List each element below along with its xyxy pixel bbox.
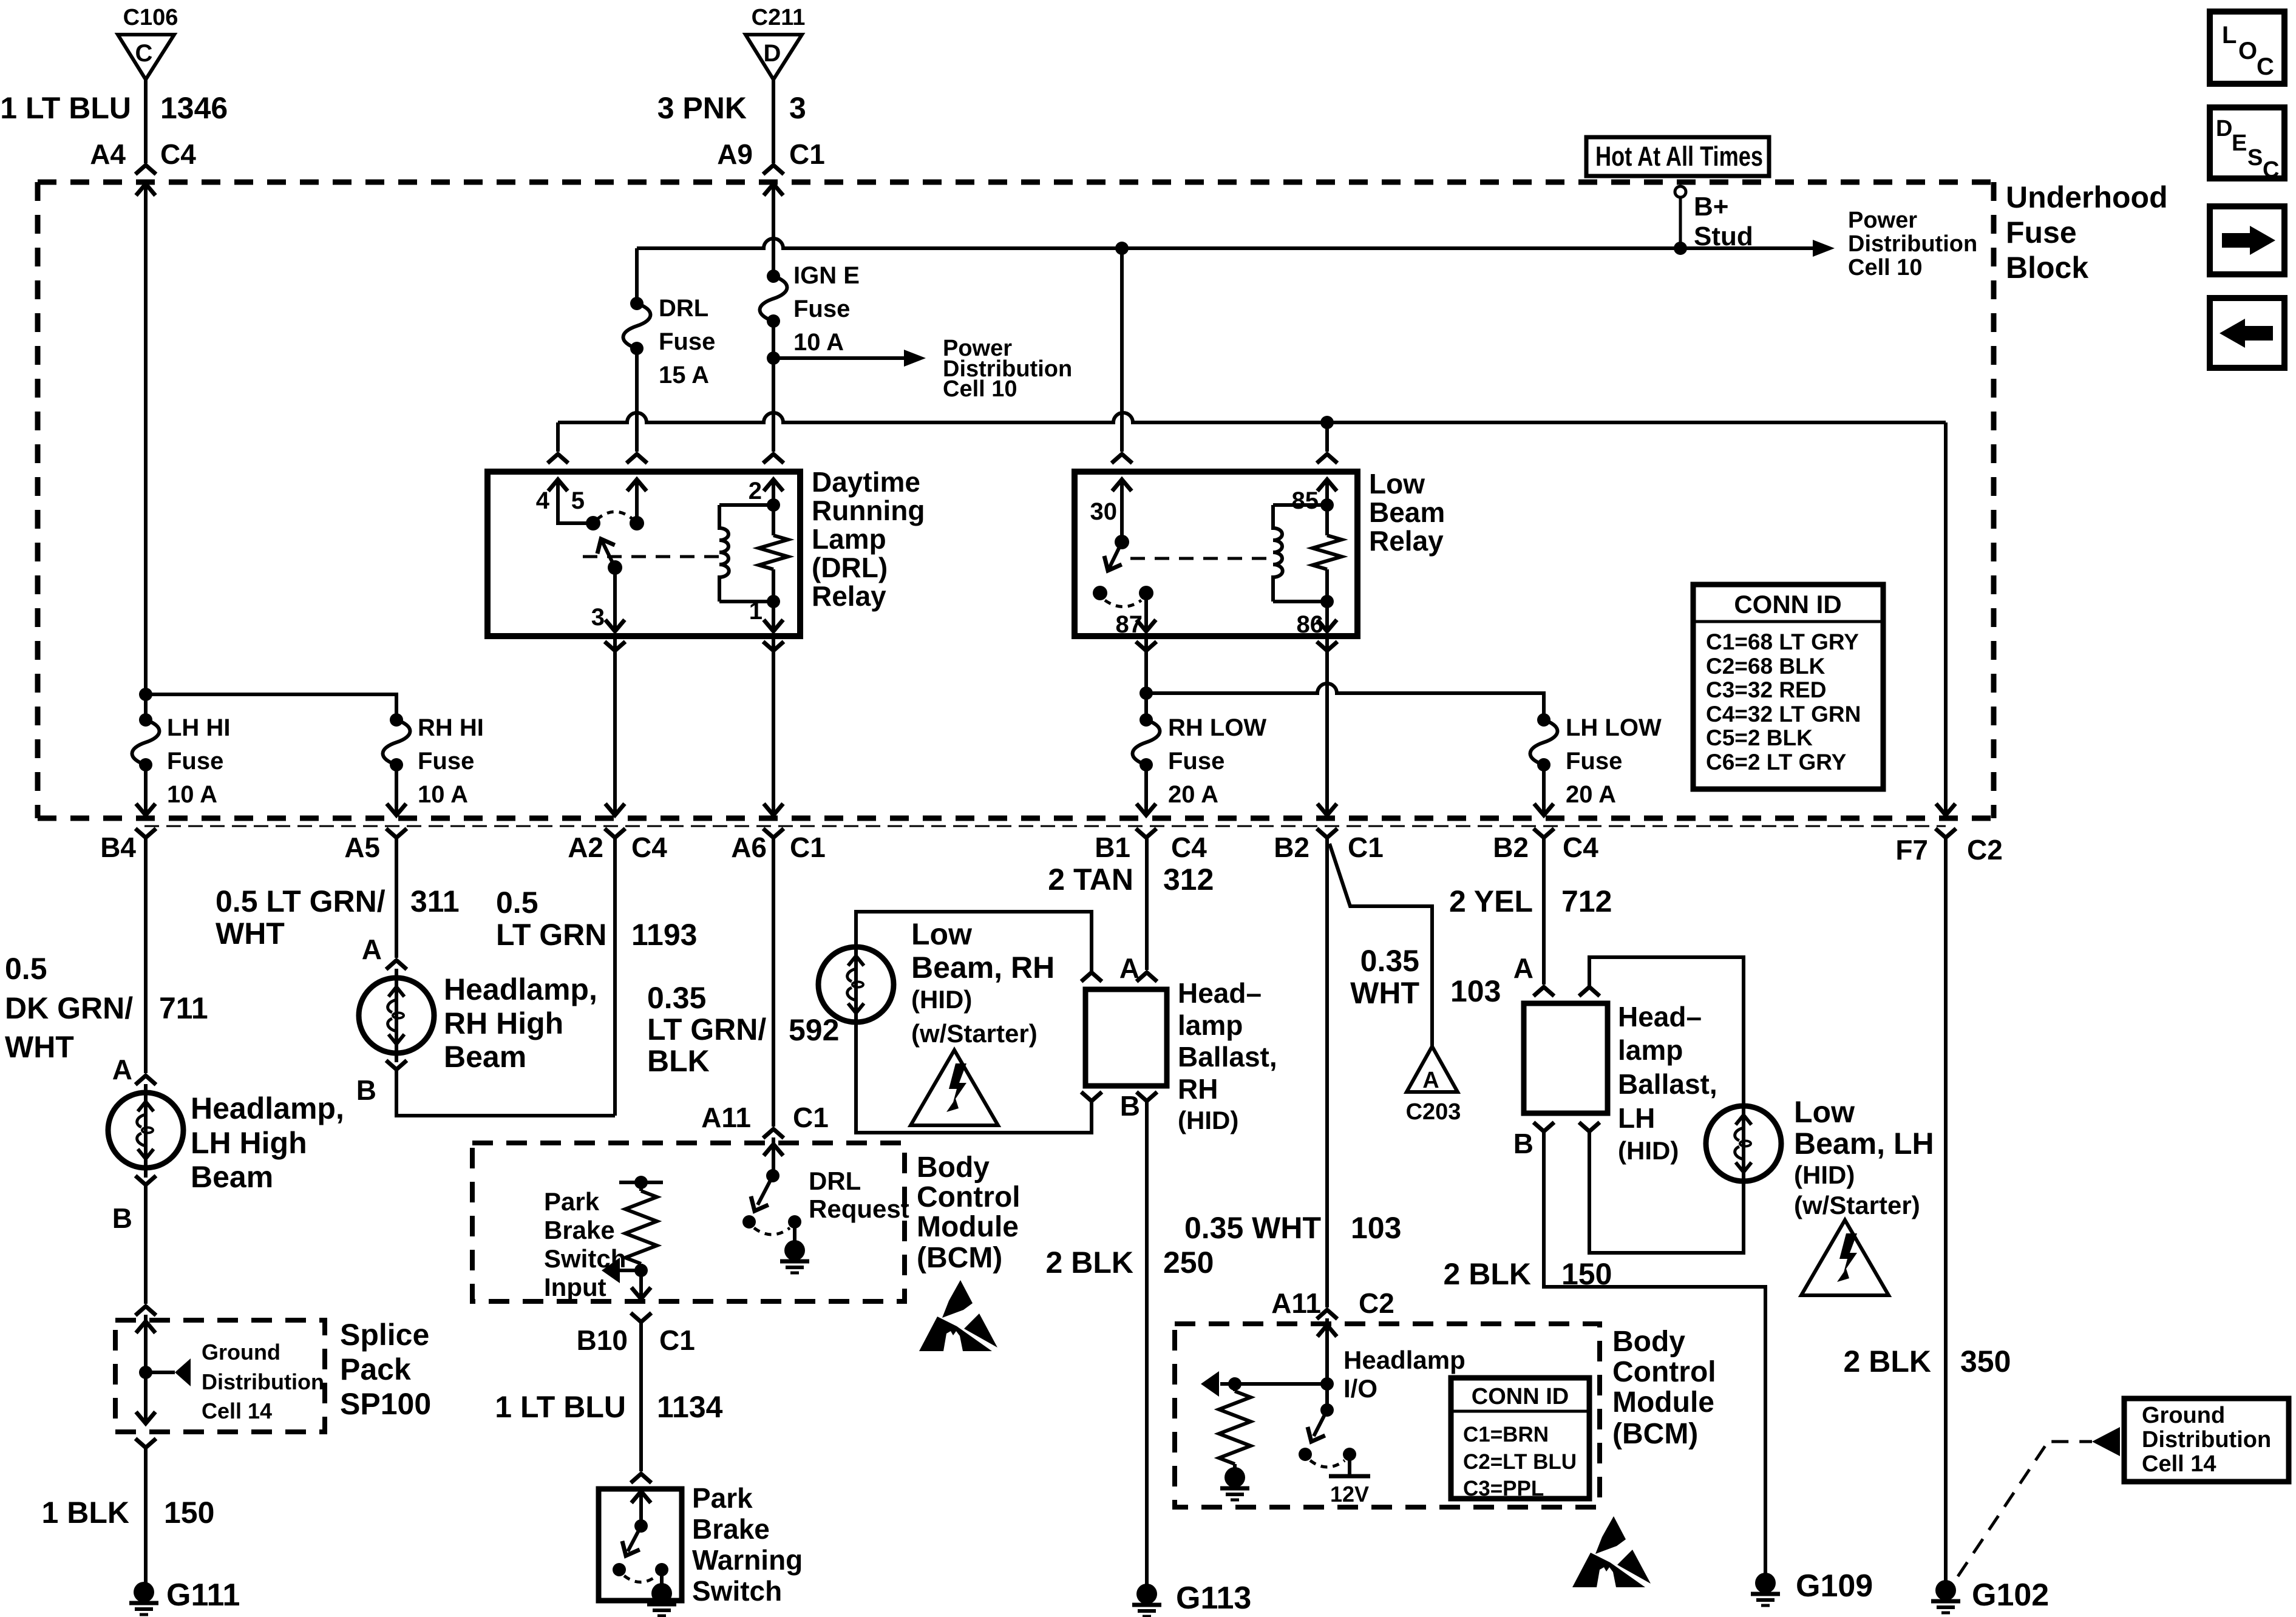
svg-text:Fuse: Fuse xyxy=(1168,748,1224,775)
svg-text:Pack: Pack xyxy=(340,1352,411,1386)
svg-text:WHT: WHT xyxy=(5,1030,74,1064)
wire pin86 to border B2 xyxy=(1325,636,1329,815)
svg-text:C4: C4 xyxy=(160,138,196,170)
svg-text:C: C xyxy=(2257,53,2274,80)
svg-text:E: E xyxy=(2232,131,2247,156)
svg-text:G113: G113 xyxy=(1176,1581,1251,1616)
LB relay switch common xyxy=(1115,535,1129,549)
svg-text:LH HI: LH HI xyxy=(167,714,230,741)
svg-text:0.35 WHT: 0.35 WHT xyxy=(1184,1211,1321,1245)
svg-text:Beam: Beam xyxy=(1369,497,1445,528)
ground DRL request internal xyxy=(780,1240,809,1273)
svg-text:312: 312 xyxy=(1163,863,1214,897)
svg-text:Fuse: Fuse xyxy=(167,748,223,775)
DRL relay switch common xyxy=(586,516,600,531)
svg-text:B+: B+ xyxy=(1694,192,1728,222)
node pin87 low beam split xyxy=(1140,686,1153,700)
connector C106 xyxy=(118,5,178,80)
LB relay dashed throw arc xyxy=(1105,600,1141,607)
headlamp ballast LH box xyxy=(1524,1003,1608,1113)
svg-text:C2: C2 xyxy=(1359,1287,1394,1319)
svg-text:O: O xyxy=(2238,38,2257,64)
DRL relay pin 2 xyxy=(749,478,783,505)
connector C211 xyxy=(746,5,805,80)
svg-text:B2: B2 xyxy=(1493,832,1529,863)
wire ballast RH B to G113 xyxy=(1145,1101,1149,1584)
right arrow box xyxy=(2210,206,2284,274)
svg-text:(BCM): (BCM) xyxy=(1612,1418,1698,1450)
wire RH LOW fuse to border B1 xyxy=(1144,765,1148,815)
svg-text:G111: G111 xyxy=(166,1578,240,1613)
svg-text:2 TAN: 2 TAN xyxy=(1048,863,1133,897)
svg-text:D: D xyxy=(2216,116,2232,141)
exit A6 C1 xyxy=(763,829,784,838)
B+ stud xyxy=(1675,186,1753,251)
wire B+ rail y409 xyxy=(637,239,1680,248)
svg-text:350: 350 xyxy=(1960,1344,2011,1378)
relay DRL box xyxy=(487,472,800,636)
svg-text:A11: A11 xyxy=(701,1102,751,1133)
svg-text:592: 592 xyxy=(789,1013,839,1047)
svg-text:10 A: 10 A xyxy=(418,781,468,808)
wire F7 C2 to G102 xyxy=(1944,838,1948,1581)
svg-text:10 A: 10 A xyxy=(167,781,217,808)
DRL request switch xyxy=(742,1167,909,1242)
svg-text:Beam, RH: Beam, RH xyxy=(911,951,1055,985)
resistor headlamp I/O pull-down xyxy=(1219,1377,1251,1469)
svg-text:3 PNK: 3 PNK xyxy=(657,91,747,125)
wire pin5 drop xyxy=(635,413,639,452)
svg-text:Running: Running xyxy=(812,495,925,526)
svg-text:IGN E: IGN E xyxy=(793,262,860,289)
headlamp I/O switch xyxy=(1299,1403,1370,1507)
svg-text:A: A xyxy=(1513,952,1533,984)
svg-text:712: 712 xyxy=(1561,884,1612,918)
park brake switch input pull-up xyxy=(619,1176,663,1298)
wire C211 to fuse block xyxy=(772,80,775,163)
svg-text:LT GRN: LT GRN xyxy=(496,918,606,952)
svg-text:CONN ID: CONN ID xyxy=(1734,590,1841,619)
park brake warning switch box xyxy=(599,1489,682,1601)
fuse RH LOW 20A xyxy=(1133,713,1267,808)
node ballast RH pin B xyxy=(1081,1092,1102,1101)
BCM dashed box (headlamp I/O) xyxy=(1175,1324,1600,1507)
svg-text:F7: F7 xyxy=(1895,834,1928,866)
svg-text:LH LOW: LH LOW xyxy=(1566,714,1662,741)
wire B2 C4 to ballast LH pin A xyxy=(1542,838,1546,985)
svg-text:(BCM): (BCM) xyxy=(917,1242,1002,1274)
svg-text:0.35: 0.35 xyxy=(1360,944,1419,978)
svg-text:1 BLK: 1 BLK xyxy=(42,1496,129,1530)
svg-text:C3=32 RED: C3=32 RED xyxy=(1706,677,1826,702)
connector face line C1/C2/C4 xyxy=(144,825,1946,827)
svg-text:DRL: DRL xyxy=(809,1167,861,1195)
svg-text:C106: C106 xyxy=(123,5,178,30)
wire B4 to LH high beam xyxy=(144,838,148,1073)
fuse DRL 15A xyxy=(623,248,716,388)
wire dashed reference to ground distribution xyxy=(1958,1442,2092,1576)
node splice junction xyxy=(139,1366,152,1379)
svg-text:B: B xyxy=(112,1202,132,1234)
svg-text:A6: A6 xyxy=(731,832,767,863)
LB relay actuation dashed link xyxy=(1130,557,1273,560)
wire pin87 drop xyxy=(1144,636,1148,720)
DRL relay pin 1 xyxy=(749,598,783,631)
svg-text:C: C xyxy=(135,40,153,67)
svg-text:(HID): (HID) xyxy=(1794,1161,1855,1189)
svg-text:Body: Body xyxy=(1612,1326,1685,1358)
svg-text:S: S xyxy=(2247,145,2263,171)
svg-text:D: D xyxy=(764,40,781,67)
svg-text:Ground: Ground xyxy=(202,1340,280,1364)
headlamp LH High Beam bulb xyxy=(144,1084,148,1178)
svg-text:1: 1 xyxy=(749,598,763,625)
svg-text:2 BLK: 2 BLK xyxy=(1046,1246,1133,1280)
svg-text:C2=68 BLK: C2=68 BLK xyxy=(1706,654,1826,679)
node IGN E branch xyxy=(767,351,780,365)
svg-text:A4: A4 xyxy=(90,138,126,170)
svg-text:L: L xyxy=(2222,22,2237,49)
svg-text:WHT: WHT xyxy=(216,917,285,951)
svg-text:103: 103 xyxy=(1351,1211,1401,1245)
svg-text:250: 250 xyxy=(1163,1246,1214,1280)
svg-text:A11: A11 xyxy=(1271,1287,1321,1319)
svg-text:Beam: Beam xyxy=(191,1160,273,1194)
svg-text:Power: Power xyxy=(1848,208,1917,233)
exit B4 xyxy=(135,829,156,838)
svg-text:Relay: Relay xyxy=(812,580,886,612)
svg-text:C6=2 LT GRY: C6=2 LT GRY xyxy=(1706,750,1847,775)
svg-text:Control: Control xyxy=(1612,1356,1716,1388)
svg-text:C4: C4 xyxy=(1563,832,1598,863)
low beam RH bulb xyxy=(818,947,894,1022)
svg-text:2: 2 xyxy=(749,478,762,504)
ground headlamp I/O internal xyxy=(1220,1467,1249,1500)
svg-text:A: A xyxy=(112,1054,132,1085)
svg-text:Beam, LH: Beam, LH xyxy=(1794,1127,1934,1161)
svg-text:0.5: 0.5 xyxy=(5,952,47,986)
svg-text:1 LT BLU: 1 LT BLU xyxy=(0,91,131,125)
svg-text:C2: C2 xyxy=(1967,834,2003,866)
svg-text:Control: Control xyxy=(917,1181,1021,1213)
svg-text:Underhood: Underhood xyxy=(2006,180,2168,214)
svg-text:C4: C4 xyxy=(1171,832,1207,863)
svg-text:G109: G109 xyxy=(1796,1568,1873,1604)
ground G111 xyxy=(129,1582,158,1615)
wire headlamp I/O reference arrow xyxy=(1220,1382,1327,1386)
svg-text:(HID): (HID) xyxy=(1618,1136,1679,1165)
ground G113 xyxy=(1132,1584,1161,1616)
DRL relay switch blade xyxy=(593,535,615,568)
Hot At All Times box xyxy=(1586,137,1769,176)
svg-text:A5: A5 xyxy=(344,832,380,863)
exit B1 C4 xyxy=(1136,829,1156,838)
svg-text:150: 150 xyxy=(164,1496,214,1530)
svg-text:A9: A9 xyxy=(717,138,753,170)
svg-text:Brake: Brake xyxy=(692,1513,770,1545)
svg-text:C4: C4 xyxy=(631,832,667,863)
svg-text:LH High: LH High xyxy=(191,1126,307,1160)
node B terminal LH high beam xyxy=(135,1176,156,1185)
DRL relay pin 5 contact xyxy=(571,480,647,531)
ground G102 xyxy=(1931,1580,1960,1613)
fuse LH LOW 20A xyxy=(1530,713,1662,808)
ESD symbol BCM2 xyxy=(1572,1516,1651,1587)
svg-text:Hot At All Times: Hot At All Times xyxy=(1595,141,1763,172)
svg-text:Module: Module xyxy=(1612,1386,1714,1419)
wire B2 C1 down to BCM xyxy=(1325,838,1329,1307)
node headlamp I/O junction xyxy=(1320,1377,1334,1391)
DRL relay pin 4 xyxy=(536,480,593,523)
svg-text:C211: C211 xyxy=(752,5,806,30)
svg-text:Fuse: Fuse xyxy=(659,328,715,355)
wire B10 exit from BCM xyxy=(631,1287,651,1299)
svg-text:Block: Block xyxy=(2006,251,2088,285)
svg-text:Distribution: Distribution xyxy=(1848,231,1977,257)
headlamp ballast RH box xyxy=(1085,989,1167,1086)
svg-text:103: 103 xyxy=(1450,974,1501,1008)
svg-text:Park: Park xyxy=(692,1482,753,1514)
fuse RH HI 10A xyxy=(383,713,484,808)
wire A5 to RH high beam xyxy=(395,838,398,958)
wire rail y696 pin4 to F7 xyxy=(558,413,1946,422)
relay Low Beam box xyxy=(1075,472,1357,636)
node park brake input junction xyxy=(634,1264,648,1277)
svg-text:Ballast,: Ballast, xyxy=(1178,1041,1277,1073)
LB relay pin 86 xyxy=(1297,602,1337,638)
svg-text:SP100: SP100 xyxy=(340,1387,431,1421)
svg-text:5: 5 xyxy=(571,487,585,514)
DRL relay dashed throw arc xyxy=(597,512,633,520)
svg-text:Request: Request xyxy=(809,1195,909,1223)
low beam LH bulb xyxy=(1706,1106,1781,1181)
svg-text:(DRL): (DRL) xyxy=(812,552,888,583)
svg-text:lamp: lamp xyxy=(1178,1009,1243,1041)
svg-text:C: C xyxy=(2263,157,2279,183)
svg-text:Fuse: Fuse xyxy=(418,748,474,775)
wire A6 column down to BCM xyxy=(772,838,775,1127)
BCM dashed box (DRL request) xyxy=(472,1143,905,1301)
wire link to RH HI fuse xyxy=(146,694,396,720)
wire A2 column down xyxy=(613,838,617,1116)
wire B1 C4 to ballast RH pin A xyxy=(1145,838,1149,970)
DRL relay pin 3 xyxy=(591,568,625,631)
svg-text:B1: B1 xyxy=(1095,832,1130,863)
svg-text:Headlamp: Headlamp xyxy=(1343,1346,1466,1374)
LB relay pin 87 xyxy=(1116,593,1156,638)
node B+ rail to pin30 riser xyxy=(1115,242,1129,255)
svg-text:311: 311 xyxy=(410,884,460,918)
node rail to LB relay pin85 xyxy=(1320,416,1334,429)
svg-text:C1: C1 xyxy=(1348,832,1384,863)
svg-text:(HID): (HID) xyxy=(911,985,972,1014)
svg-text:C2=LT BLU: C2=LT BLU xyxy=(1463,1450,1577,1474)
svg-text:DRL: DRL xyxy=(659,295,708,322)
LB relay switch blade xyxy=(1099,542,1122,575)
svg-text:1346: 1346 xyxy=(160,91,228,125)
svg-text:Beam: Beam xyxy=(444,1040,526,1074)
wire C211 feed down to IGN E fuse xyxy=(772,184,775,276)
svg-text:C1: C1 xyxy=(659,1324,695,1356)
node high beam feed split xyxy=(139,688,152,701)
svg-text:85: 85 xyxy=(1292,487,1319,514)
svg-text:Relay: Relay xyxy=(1369,525,1444,557)
svg-text:B: B xyxy=(1120,1090,1140,1122)
svg-text:lamp: lamp xyxy=(1618,1034,1683,1066)
svg-text:Lamp: Lamp xyxy=(812,523,886,555)
svg-text:Ground: Ground xyxy=(2142,1403,2225,1428)
splice pack SP100 dashed box xyxy=(115,1320,325,1432)
wire LH high beam to splice pack xyxy=(144,1185,148,1304)
svg-text:150: 150 xyxy=(1561,1257,1612,1291)
wire low beam RH bulb loop xyxy=(856,912,1092,1133)
svg-text:Ballast,: Ballast, xyxy=(1618,1068,1717,1100)
svg-text:Headlamp,: Headlamp, xyxy=(444,972,597,1006)
svg-text:Warning: Warning xyxy=(692,1544,803,1576)
svg-text:A2: A2 xyxy=(568,832,603,863)
ground distribution cell 14 box xyxy=(2124,1398,2289,1482)
svg-text:1 LT BLU: 1 LT BLU xyxy=(495,1390,626,1424)
LB relay left contact xyxy=(1093,586,1107,600)
svg-text:G102: G102 xyxy=(1972,1578,2049,1613)
svg-text:C1=BRN: C1=BRN xyxy=(1463,1423,1549,1446)
svg-text:(w/Starter): (w/Starter) xyxy=(911,1019,1038,1048)
svg-text:C1: C1 xyxy=(790,832,826,863)
LB relay coil resistor xyxy=(1313,498,1342,608)
LOC box xyxy=(2210,12,2284,84)
svg-text:0.5: 0.5 xyxy=(496,886,538,920)
wire ballast LH B to G109 xyxy=(1544,1131,1765,1573)
svg-text:1193: 1193 xyxy=(631,918,697,952)
svg-text:Module: Module xyxy=(917,1211,1019,1243)
warning triangle RH HID xyxy=(911,1050,998,1125)
svg-text:C1: C1 xyxy=(793,1102,829,1133)
wire LH LOW fuse to border B2 xyxy=(1542,765,1546,815)
svg-text:RH LOW: RH LOW xyxy=(1168,714,1266,741)
svg-text:3: 3 xyxy=(789,91,806,125)
wire park brake switch input reference arrow xyxy=(620,1269,641,1272)
wire RH high beam B to A2 column xyxy=(396,1070,615,1116)
wire pin2 drop xyxy=(772,413,775,452)
DRL relay switch contact (pin3) xyxy=(608,560,622,575)
svg-text:Low: Low xyxy=(911,917,972,951)
svg-text:86: 86 xyxy=(1297,611,1324,638)
exit A5 xyxy=(386,829,407,838)
headlamp RH High Beam bulb xyxy=(395,969,398,1062)
svg-text:0.5 LT GRN/: 0.5 LT GRN/ xyxy=(216,884,385,918)
svg-text:BLK: BLK xyxy=(647,1044,710,1078)
wire LH HI fuse to border B4 xyxy=(144,765,148,815)
svg-text:C4=32 LT GRN: C4=32 LT GRN xyxy=(1706,702,1861,727)
wire C106 to fuse block xyxy=(144,80,148,163)
exit A2 C4 xyxy=(605,829,625,838)
DRL relay actuation dashed link xyxy=(583,555,719,558)
exit B2 C1 xyxy=(1317,829,1337,838)
DRL relay coil xyxy=(719,505,773,602)
svg-text:Distribution: Distribution xyxy=(202,1369,324,1394)
svg-text:87: 87 xyxy=(1116,611,1143,638)
wire B10 to park brake warning switch xyxy=(631,1474,651,1483)
ESD symbol BCM xyxy=(919,1280,997,1351)
wire RH HI fuse to border A5 xyxy=(395,765,398,815)
svg-text:Fuse: Fuse xyxy=(1566,748,1622,775)
svg-text:3: 3 xyxy=(591,604,605,631)
svg-text:Splice: Splice xyxy=(340,1318,429,1352)
wire pin1 to border A6 xyxy=(772,636,775,815)
wire splice to ground distribution reference xyxy=(146,1371,175,1374)
LB relay coil xyxy=(1273,505,1327,602)
node ballast LH pin B xyxy=(1533,1122,1554,1131)
svg-text:B4: B4 xyxy=(100,832,136,863)
wire link pin87 to LH LOW fuse xyxy=(1146,683,1544,720)
LB relay pin 85 xyxy=(1292,480,1337,514)
svg-text:Cell 14: Cell 14 xyxy=(202,1398,272,1423)
svg-text:Fuse: Fuse xyxy=(793,296,850,322)
svg-text:CONN ID: CONN ID xyxy=(1472,1384,1569,1409)
wire arrow to power distribution (IGN E) xyxy=(773,356,906,360)
CONN ID table (BCM) xyxy=(1451,1378,1589,1500)
wire pin85 drop xyxy=(1325,422,1329,452)
exit B2 C4 xyxy=(1533,829,1554,838)
LB relay pin 30 xyxy=(1090,480,1132,542)
ground G109 xyxy=(1751,1573,1780,1605)
ground park brake warning switch xyxy=(647,1583,676,1616)
svg-text:Input: Input xyxy=(544,1273,606,1301)
svg-text:Low: Low xyxy=(1369,468,1425,500)
svg-text:Cell 10: Cell 10 xyxy=(1848,255,1923,280)
svg-text:Headlamp,: Headlamp, xyxy=(191,1091,344,1125)
node B+ stud junction xyxy=(1674,242,1687,255)
node B terminal RH high beam xyxy=(386,1060,407,1070)
svg-text:Switch: Switch xyxy=(692,1575,782,1607)
svg-text:C1: C1 xyxy=(789,138,825,170)
LB relay pin 87 contact xyxy=(1139,586,1153,600)
svg-text:I/O: I/O xyxy=(1343,1374,1377,1403)
svg-text:12V: 12V xyxy=(1330,1482,1369,1507)
svg-text:Body: Body xyxy=(917,1151,990,1184)
svg-text:DK GRN/: DK GRN/ xyxy=(5,991,133,1025)
svg-text:RH HI: RH HI xyxy=(418,714,484,741)
svg-text:C203: C203 xyxy=(1406,1099,1461,1125)
svg-text:Head–: Head– xyxy=(1618,1001,1702,1032)
wire F7 drop xyxy=(1944,422,1948,815)
svg-text:0.35: 0.35 xyxy=(647,981,706,1015)
svg-text:Switch: Switch xyxy=(544,1244,626,1273)
svg-text:(w/Starter): (w/Starter) xyxy=(1794,1191,1920,1219)
wire pin4 riser xyxy=(556,422,560,452)
svg-text:15 A: 15 A xyxy=(659,362,709,388)
svg-text:Low: Low xyxy=(1794,1095,1855,1129)
svg-text:2 YEL: 2 YEL xyxy=(1449,884,1533,918)
fuse LH HI 10A xyxy=(132,713,231,808)
svg-text:711: 711 xyxy=(159,991,208,1025)
svg-text:Cell 10: Cell 10 xyxy=(943,376,1017,402)
wire IGN E fuse output xyxy=(772,321,775,413)
svg-text:RH High: RH High xyxy=(444,1006,563,1040)
svg-text:10 A: 10 A xyxy=(793,329,844,356)
svg-text:4: 4 xyxy=(536,487,550,514)
underhood fuse block dashed border xyxy=(38,182,1994,818)
DRL relay coil resistor xyxy=(759,498,788,608)
wire pin3 to border A2 xyxy=(613,636,617,815)
svg-text:A: A xyxy=(362,934,382,965)
svg-text:C3=PPL: C3=PPL xyxy=(1463,1477,1544,1500)
svg-text:Distribution: Distribution xyxy=(2142,1427,2271,1453)
wire low beam LH bulb loop xyxy=(1589,957,1744,1253)
svg-text:A: A xyxy=(1422,1068,1439,1093)
svg-text:C1=68 LT GRY: C1=68 LT GRY xyxy=(1706,629,1859,654)
svg-text:LH: LH xyxy=(1618,1102,1655,1134)
